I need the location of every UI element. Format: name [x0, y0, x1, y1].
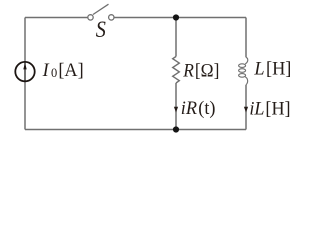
svg-text:R: R	[182, 60, 194, 81]
svg-text:S: S	[96, 17, 106, 42]
svg-text:iL: iL	[249, 98, 264, 119]
svg-text:[H]: [H]	[265, 98, 290, 119]
svg-text:0: 0	[51, 66, 57, 80]
svg-text:L: L	[253, 58, 264, 79]
svg-text:[Ω]: [Ω]	[195, 60, 219, 81]
svg-text:[H]: [H]	[266, 58, 291, 79]
svg-text:(t): (t)	[198, 98, 215, 119]
svg-text:iR: iR	[181, 98, 198, 119]
svg-text:[A]: [A]	[58, 60, 83, 81]
svg-text:I: I	[42, 60, 50, 81]
